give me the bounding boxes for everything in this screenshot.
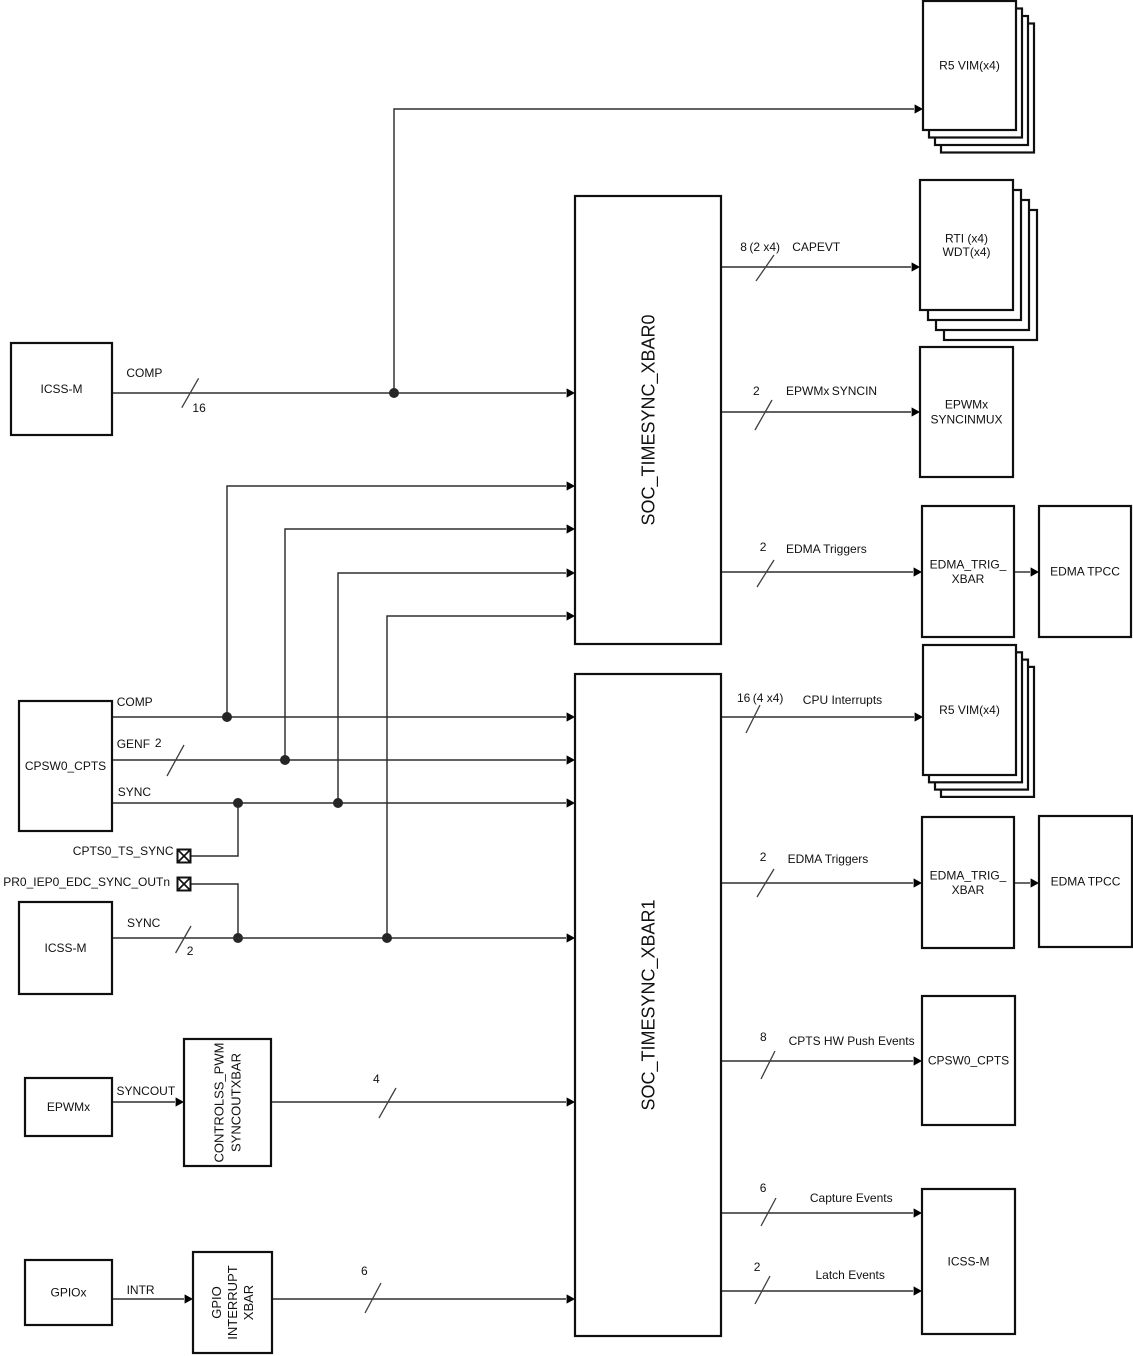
wire riser COMP to XBAR0 in2 (227, 486, 566, 717)
wire CPSW0 GENF to XBAR1 (112, 759, 566, 761)
junction ICSS SYNC pin tap (233, 933, 243, 943)
arrowhead into CPSW0_CPTS right (914, 1056, 922, 1065)
svg-text:XBAR: XBAR (952, 883, 985, 897)
bus slash 16 (182, 378, 199, 407)
wire EDMA Triggers 0 (721, 571, 913, 573)
svg-text:2: 2 (754, 1260, 761, 1274)
wire PWM syncout to XBAR1 (271, 1101, 566, 1103)
svg-text:6: 6 (760, 1181, 767, 1195)
svg-text:SOC_TIMESYNC_XBAR0: SOC_TIMESYNC_XBAR0 (638, 314, 659, 525)
svg-text:ICSS-M: ICSS-M (45, 941, 87, 955)
svg-text:8: 8 (760, 1030, 767, 1044)
svg-text:INTERRUPT: INTERRUPT (225, 1265, 240, 1339)
svg-text:ICSS-M: ICSS-M (41, 382, 83, 396)
svg-text:4: 4 (373, 1072, 380, 1086)
svg-text:Latch Events: Latch Events (816, 1268, 885, 1282)
wire CPU Interrupts (721, 716, 914, 718)
junction GENF (280, 755, 290, 765)
arrowhead into XBAR0 in2 (567, 481, 575, 490)
svg-text:COMP: COMP (117, 695, 153, 709)
svg-text:SYNCINMUX: SYNCINMUX (930, 413, 1002, 427)
svg-text:INTR: INTR (127, 1283, 155, 1297)
wire CAPEVT (721, 266, 911, 268)
svg-text:COMP: COMP (126, 366, 162, 380)
bus slash Capture (761, 1198, 776, 1226)
svg-text:EDMA_TRIG_: EDMA_TRIG_ (930, 557, 1007, 571)
arrowhead into XBAR0 in4 (567, 568, 575, 577)
block SOC_TIMESYNC_XBAR0 (575, 196, 721, 644)
svg-text:R5 VIM(x4): R5 VIM(x4) (939, 703, 1000, 717)
svg-text:SOC_TIMESYNC_XBAR1: SOC_TIMESYNC_XBAR1 (638, 899, 659, 1110)
block CONTROLSS_PWM SYNCOUTXBAR (184, 1039, 271, 1166)
wire Latch Events (721, 1290, 913, 1292)
arrowhead into R5 VIM mid (915, 712, 923, 721)
wire ICSS-M SYNC to XBAR1 (112, 937, 566, 939)
junction ICSS SYNC riser (382, 933, 392, 943)
wire riser GENF to XBAR0 in3 (285, 529, 566, 760)
arrowhead into R5 VIM top (915, 104, 923, 113)
bus slash Latch (755, 1276, 770, 1304)
svg-text:EPWMx SYNCIN: EPWMx SYNCIN (786, 384, 877, 398)
svg-text:XBAR: XBAR (952, 572, 985, 586)
arrowhead into CONTROLSS XBAR (176, 1097, 184, 1106)
arrowhead into XBAR1 COMP (567, 712, 575, 721)
junction SYNC pin tap (233, 798, 243, 808)
svg-text:2: 2 (760, 850, 767, 864)
arrowhead into XBAR1 pwm (567, 1097, 575, 1106)
wire GPIOx INTR (112, 1298, 184, 1300)
bus slash ICSS SYNC 2 (176, 926, 191, 953)
svg-text:GPIO: GPIO (209, 1286, 224, 1319)
svg-text:16: 16 (192, 401, 206, 415)
arrowhead into XBAR0 COMP (567, 388, 575, 397)
bus slash GENF 2 (167, 745, 184, 776)
svg-text:R5 VIM(x4): R5 VIM(x4) (939, 59, 1000, 73)
svg-text:CONTROLSS_PWM: CONTROLSS_PWM (212, 1043, 227, 1163)
junction on COMP line (389, 388, 399, 398)
svg-text:GENF: GENF (117, 737, 150, 751)
arrowhead into XBAR0 in5 (567, 611, 575, 620)
svg-text:CPTS0_TS_SYNC: CPTS0_TS_SYNC (73, 844, 174, 858)
svg-text:EDMA_TRIG_: EDMA_TRIG_ (930, 868, 1007, 882)
arrowhead into XBAR0 in3 (567, 524, 575, 533)
arrowhead into EDMA_TRIG_XBAR 0 (914, 567, 922, 576)
svg-text:XBAR: XBAR (241, 1285, 256, 1320)
wire EPWMx SYNCIN (721, 411, 911, 413)
bus slash EDMA0 (757, 560, 774, 587)
block CPSW0_CPTS left (19, 701, 112, 831)
svg-text:EPWMx: EPWMx (945, 398, 988, 412)
svg-text:EDMA Triggers: EDMA Triggers (788, 852, 869, 866)
wire riser SYNC to XBAR0 in4 (338, 573, 566, 803)
pin CPTS0_TS_SYNC (178, 850, 191, 863)
svg-text:EDMA TPCC: EDMA TPCC (1051, 875, 1121, 889)
wire SYNC drop to CPTS0_TS_SYNC pin (191, 803, 238, 856)
arrowhead into EDMA_TRIG_XBAR 1 (914, 878, 922, 887)
arrowhead into EDMA TPCC 0 (1031, 567, 1039, 576)
svg-text:RTI (x4): RTI (x4) (945, 231, 988, 245)
svg-text:CPSW0_CPTS: CPSW0_CPTS (928, 1054, 1009, 1068)
wire EDMA_TRIG_XBAR 0 to TPCC (1014, 571, 1030, 573)
arrowhead into ICSS-M latch (914, 1286, 922, 1295)
block SOC_TIMESYNC_XBAR1 (575, 674, 721, 1336)
block GPIOx (25, 1260, 112, 1325)
svg-text:WDT(x4): WDT(x4) (943, 245, 991, 259)
arrowhead into EPWMx SYNCINMUX (912, 407, 920, 416)
svg-text:2: 2 (155, 736, 162, 750)
wire riser ICSS SYNC to XBAR0 in5 (387, 616, 566, 938)
block R5 VIM(x4) top stack (923, 1, 1034, 153)
block ICSS-M top (11, 343, 112, 435)
svg-text:EPWMx: EPWMx (47, 1100, 90, 1114)
svg-text:CPTS HW Push Events: CPTS HW Push Events (789, 1034, 915, 1048)
wire CPSW0 COMP to XBAR1 (112, 716, 566, 718)
wire PR0_IEP0 pin to ICSS SYNC (191, 884, 238, 938)
arrowhead into XBAR1 SYNC (567, 798, 575, 807)
wire EDMA_TRIG_XBAR 1 to TPCC (1014, 882, 1030, 884)
block ICSS-M mid (19, 902, 112, 994)
wire Capture Events (721, 1212, 913, 1214)
svg-text:GPIOx: GPIOx (50, 1286, 86, 1300)
svg-text:CPSW0_CPTS: CPSW0_CPTS (25, 759, 106, 773)
svg-text:PR0_IEP0_EDC_SYNC_OUTn: PR0_IEP0_EDC_SYNC_OUTn (3, 875, 170, 889)
bus slash SYNCIN (755, 400, 772, 430)
arrowhead into XBAR1 ICSS SYNC (567, 933, 575, 942)
wire EDMA Triggers 1 (721, 882, 913, 884)
block R5 VIM(x4) mid stack (923, 645, 1034, 797)
svg-text:SYNCOUT: SYNCOUT (117, 1084, 176, 1098)
svg-text:CAPEVT: CAPEVT (792, 240, 841, 254)
svg-text:16 (4 x4): 16 (4 x4) (737, 691, 783, 705)
pin PR0_IEP0_EDC_SYNC_OUTn (178, 878, 191, 891)
arrowhead into EDMA TPCC 1 (1031, 878, 1039, 887)
wire ICSS-M COMP to XBAR0 (112, 392, 566, 394)
junction SYNC riser (333, 798, 343, 808)
svg-text:SYNCOUTXBAR: SYNCOUTXBAR (229, 1053, 244, 1152)
arrowhead CAPEVT into RTI (912, 262, 920, 271)
wire CPSW0 SYNC to XBAR1 (112, 802, 566, 804)
bus slash CPTSHW (761, 1051, 775, 1079)
bus slash CPU (746, 705, 760, 733)
arrowhead into XBAR1 GENF (567, 755, 575, 764)
wire EPWMx SYNCOUT (112, 1101, 175, 1103)
arrowhead into ICSS-M capture (914, 1208, 922, 1217)
bus slash CAPEVT (756, 255, 774, 281)
svg-text:6: 6 (361, 1264, 368, 1278)
block GPIO INTERRUPT XBAR (193, 1252, 272, 1353)
wire riser COMP to R5 VIM (394, 109, 914, 393)
bus slash EDMA1 (757, 869, 774, 897)
block EDMA TPCC 1 (1039, 816, 1132, 947)
svg-text:SYNC: SYNC (127, 916, 161, 930)
block RTI WDT stack (920, 180, 1037, 340)
bus slash gpio 6 (365, 1283, 381, 1313)
junction CPSW0 COMP (222, 712, 232, 722)
wire gpio to XBAR1 (272, 1298, 566, 1300)
svg-text:SYNC: SYNC (118, 785, 152, 799)
svg-text:EDMA Triggers: EDMA Triggers (786, 542, 867, 556)
block EDMA TPCC 0 (1039, 506, 1131, 637)
block EDMA_TRIG_XBAR 0 (922, 506, 1014, 637)
block CPSW0_CPTS right (922, 996, 1015, 1125)
block EPWMx (25, 1078, 112, 1136)
block EPWMx SYNCINMUX (920, 347, 1013, 477)
svg-text:CPU Interrupts: CPU Interrupts (803, 693, 882, 707)
svg-text:Capture Events: Capture Events (810, 1191, 893, 1205)
svg-text:8 (2 x4): 8 (2 x4) (740, 240, 780, 254)
arrowhead into XBAR1 gpio (567, 1294, 575, 1303)
svg-text:2: 2 (187, 944, 194, 958)
svg-text:2: 2 (760, 540, 767, 554)
svg-text:2: 2 (753, 384, 760, 398)
arrowhead into GPIO XBAR (185, 1294, 193, 1303)
wire CPTS HW Push Events (721, 1060, 913, 1062)
block ICSS-M right (922, 1189, 1015, 1334)
bus slash pwm 4 (379, 1088, 396, 1118)
block EDMA_TRIG_XBAR 1 (922, 817, 1014, 948)
svg-text:EDMA TPCC: EDMA TPCC (1050, 565, 1120, 579)
svg-text:ICSS-M: ICSS-M (948, 1255, 990, 1269)
